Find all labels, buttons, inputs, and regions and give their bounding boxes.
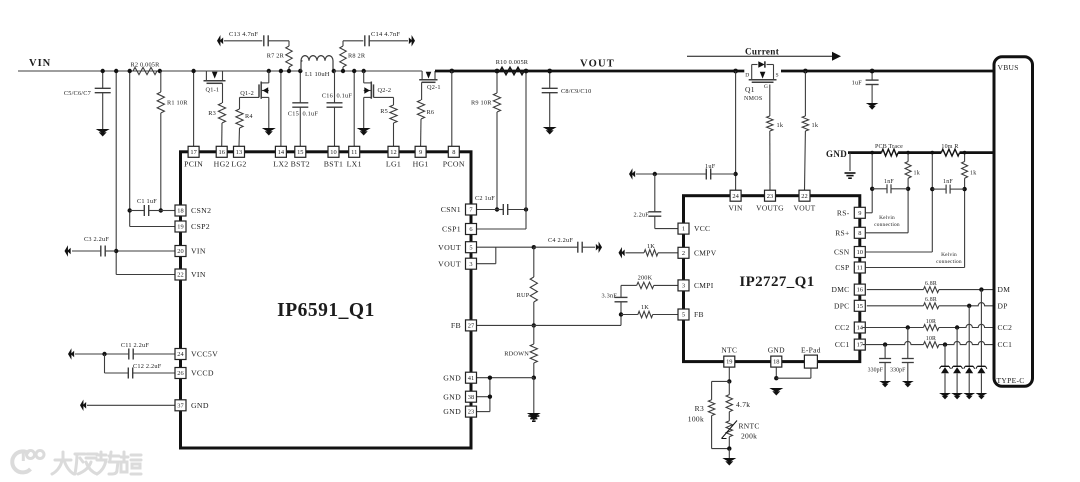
pin 13 LG2 IP6591 [231, 146, 246, 168]
wire CC1 line [862, 341, 923, 344]
wire GND41 net [477, 378, 534, 412]
node CSN 1nF [930, 187, 934, 191]
pin 3 VOUT IP6591 [438, 258, 476, 269]
node PCON [449, 69, 454, 74]
svg-text:GND: GND [443, 392, 461, 401]
svg-text:DM: DM [998, 285, 1011, 294]
svg-text:22: 22 [801, 193, 807, 200]
ground left of pin37 [80, 400, 86, 411]
pin 18 CSN2 IP6591 [175, 205, 211, 216]
pin 37 GND IP6591 [175, 400, 209, 411]
capacitor 1uF VN [636, 163, 736, 180]
svg-text:10: 10 [857, 249, 863, 256]
pin 6 CSP1 IP6591 [442, 224, 476, 235]
resistor R1 10R [157, 71, 188, 211]
node CSN2 junction [159, 208, 163, 212]
node GND38 junction [488, 376, 492, 380]
ground below C5/C6/C7 [96, 129, 110, 137]
svg-text:DMC: DMC [832, 285, 850, 294]
capacitor C3 2.2uF [72, 236, 116, 257]
ground left of C3 [65, 245, 71, 256]
svg-text:14: 14 [857, 325, 864, 332]
svg-text:CMPI: CMPI [694, 281, 714, 290]
svg-text:D: D [745, 73, 749, 79]
pin 17 PCIN IP6591 [184, 146, 203, 168]
resistor 6.8R DP [923, 297, 939, 309]
svg-text:C14 4.7nF: C14 4.7nF [371, 31, 400, 38]
svg-text:DP: DP [998, 301, 1008, 310]
svg-text:GND: GND [191, 401, 209, 410]
pin 15 DPC IP2727 [834, 300, 865, 311]
ground left of CMPV 1K [619, 247, 625, 258]
resistor RUP [517, 247, 538, 325]
node 1uF-rail [870, 69, 875, 74]
node VCC-2.2uF [653, 172, 657, 176]
label TYPE-C [997, 376, 1025, 385]
wire PCIN [193, 71, 195, 146]
svg-text:R5: R5 [380, 108, 388, 115]
pin 8 RS+ IP2727 [835, 227, 865, 238]
capacitor C1 1uF [130, 198, 161, 216]
svg-text:16: 16 [219, 149, 225, 156]
svg-text:Q2-2: Q2-2 [378, 87, 392, 94]
ground below GND18 [769, 388, 783, 396]
op-amp U1 IP6591_Q1 body [181, 152, 472, 448]
svg-text:CSP1: CSP1 [442, 225, 461, 234]
svg-text:330pF: 330pF [890, 368, 906, 374]
resistor 1K FB [621, 304, 678, 318]
svg-text:RS+: RS+ [835, 228, 849, 237]
node R9-rail [495, 69, 500, 74]
svg-text:11: 11 [351, 149, 357, 156]
svg-text:1k: 1k [970, 171, 976, 177]
resistor 4.7k [726, 381, 750, 411]
svg-text:1: 1 [682, 226, 685, 233]
node CC1 esd [943, 342, 947, 346]
node C11-C12 [102, 352, 106, 356]
wire RS- kelvin [865, 153, 872, 213]
label VOUT [580, 59, 615, 70]
svg-text:CMPV: CMPV [694, 248, 717, 257]
capacitor C13 4.7nF [224, 31, 289, 46]
svg-text:G: G [764, 84, 768, 90]
node PCIN-rail [191, 69, 195, 73]
node VIN-C5 [101, 69, 105, 73]
svg-text:Kelvin: Kelvin [879, 215, 895, 221]
svg-text:330pF: 330pF [868, 368, 884, 374]
node CSP bus [963, 151, 967, 155]
wire DM line right [939, 289, 994, 291]
wire CC1 line right [939, 341, 994, 344]
transistor Q1 NMOS [744, 61, 779, 102]
svg-text:NTC: NTC [721, 345, 737, 354]
label VBUS [998, 63, 1019, 72]
svg-text:R3: R3 [695, 404, 704, 413]
pin 17 CC1 IP2727 [835, 339, 865, 350]
svg-text:2.2uF: 2.2uF [633, 212, 649, 219]
svg-text:5: 5 [682, 312, 685, 319]
label Current arrow [687, 47, 841, 61]
wire CSP1 net [477, 71, 526, 229]
node RS- 1nF [870, 187, 874, 191]
svg-text:15: 15 [297, 149, 303, 156]
svg-text:1uF: 1uF [852, 80, 863, 87]
svg-text:FB: FB [694, 310, 704, 319]
pin 19 NTC IP2727 [721, 345, 737, 367]
ground below Q2-2 [357, 128, 371, 136]
resistor R4 gate [236, 97, 259, 146]
diode ESD DM [976, 290, 987, 393]
svg-text:BST1: BST1 [324, 160, 343, 169]
pin 5 FB IP2727 [678, 309, 704, 320]
svg-text:18: 18 [177, 208, 183, 215]
svg-text:C5/C6/C7: C5/C6/C7 [64, 90, 91, 97]
ground below 330pF CC1 [879, 381, 891, 387]
svg-text:Kelvin: Kelvin [941, 252, 957, 258]
svg-text:2: 2 [682, 250, 685, 257]
svg-text:RUP: RUP [517, 292, 530, 299]
label CC2 [998, 323, 1013, 332]
svg-text:VIN: VIN [191, 270, 206, 279]
svg-text:GND: GND [443, 373, 461, 382]
node R2 right [158, 69, 162, 73]
svg-text:38: 38 [468, 394, 474, 401]
svg-text:R1 10R: R1 10R [167, 100, 188, 107]
svg-text:1K: 1K [647, 243, 655, 250]
svg-text:GND: GND [768, 345, 785, 354]
pin 7 CSN1 IP6591 [441, 204, 477, 215]
svg-text:6: 6 [469, 226, 472, 233]
pin E-Pad IP2727 [801, 345, 821, 368]
ground left of C13 [217, 35, 223, 46]
resistor 1k RS+ [865, 153, 920, 233]
wire RDOWN to ground [533, 378, 535, 413]
capacitor C4 2.2uF [534, 237, 595, 253]
ground below ESD CC2 [951, 393, 963, 399]
svg-text:5: 5 [469, 244, 472, 251]
svg-text:DPC: DPC [834, 301, 850, 310]
svg-text:VOUT: VOUT [438, 259, 461, 268]
svg-text:S: S [776, 73, 779, 79]
svg-text:R3: R3 [208, 110, 216, 117]
ground below Q1-2 [262, 128, 276, 136]
svg-text:C1 1uF: C1 1uF [137, 198, 157, 205]
capacitor 1nF CS [932, 179, 964, 194]
svg-text:24: 24 [732, 193, 739, 200]
wire NTC to ground [728, 449, 730, 458]
capacitor C2 1uF [475, 195, 526, 215]
svg-text:TYPE-C: TYPE-C [997, 376, 1025, 385]
ground left of C11 [68, 348, 74, 359]
ground arrow right of C14 [409, 35, 415, 46]
svg-text:24: 24 [177, 351, 184, 358]
svg-text:3: 3 [469, 261, 472, 268]
label GND [826, 149, 847, 159]
svg-text:R10 0.005R: R10 0.005R [496, 59, 529, 66]
svg-text:3: 3 [682, 283, 685, 290]
pin 3 CMPI IP2727 [678, 280, 714, 291]
wire DP line [867, 305, 924, 307]
pin 14 LX2 IP6591 [273, 146, 288, 168]
label DP [998, 301, 1008, 310]
ground below 330pF CC2 [902, 381, 914, 387]
svg-text:LG2: LG2 [231, 160, 246, 169]
svg-text:IP2727_Q1: IP2727_Q1 [739, 274, 814, 290]
resistor 1k VOUT pin [802, 71, 819, 190]
svg-text:R6: R6 [427, 109, 435, 116]
ground below ESD CC1 [939, 393, 951, 399]
svg-text:BST2: BST2 [291, 160, 310, 169]
transistor Q2-1 [419, 71, 441, 91]
transistor Q1-2 [240, 71, 269, 128]
ground arrow right of C4 [596, 241, 602, 252]
diode ESD CC2 [952, 328, 963, 394]
capacitor 330pF CC1 [868, 345, 891, 381]
wire DP line right [939, 303, 994, 306]
svg-text:1nF: 1nF [943, 179, 953, 185]
resistor 10m R [941, 144, 959, 156]
resistor PCB Trace [875, 144, 903, 156]
svg-text:NMOS: NMOS [744, 96, 763, 102]
node DM esd [979, 287, 983, 291]
pin 23 GND IP6591 [443, 406, 476, 417]
node CC2 330pF [906, 325, 910, 329]
node L1 right [332, 69, 336, 73]
ground below GND bus [845, 173, 856, 178]
capacitor C14 4.7nF [343, 31, 408, 46]
pin 19 CSP2 IP6591 [175, 221, 210, 232]
svg-text:Current: Current [745, 47, 780, 57]
node RS- bus [870, 151, 874, 155]
node NTC bottom [727, 446, 731, 450]
svg-text:HG1: HG1 [413, 160, 429, 169]
svg-text:R4: R4 [245, 113, 253, 120]
svg-text:Q1: Q1 [745, 85, 755, 94]
pin 11 LX1 IP6591 [347, 146, 362, 168]
wire LX2 pin [280, 71, 282, 146]
svg-text:VIN: VIN [728, 204, 743, 213]
resistor R9 10R [471, 71, 501, 210]
svg-text:3.3nF: 3.3nF [601, 293, 617, 300]
svg-text:CC1: CC1 [835, 340, 850, 349]
svg-text:VOUTG: VOUTG [756, 204, 784, 213]
capacitor C8/C9/C10 [542, 71, 592, 127]
svg-text:37: 37 [177, 402, 184, 409]
svg-text:R7 2R: R7 2R [267, 53, 285, 60]
resistor RDOWN [504, 325, 537, 377]
svg-text:C15: C15 [288, 111, 299, 118]
svg-text:VBUS: VBUS [998, 63, 1019, 72]
pin 18 GND IP2727 [768, 345, 785, 367]
svg-text:10m R: 10m R [941, 144, 958, 150]
svg-text:VCC5V: VCC5V [191, 350, 218, 359]
ground left of 1uF [629, 168, 635, 179]
svg-text:HG2: HG2 [214, 160, 230, 169]
svg-text:100k: 100k [688, 415, 704, 424]
svg-text:1uF: 1uF [705, 163, 716, 170]
node LX2-pin [279, 69, 283, 73]
node CSN bus [931, 151, 935, 155]
pin 20 VIN IP6591 [175, 246, 206, 257]
resistor R2 0.005R [130, 62, 160, 75]
pin 16 HG2 IP6591 [214, 146, 230, 168]
svg-text:15: 15 [857, 303, 863, 310]
node RS+ bus [906, 151, 910, 155]
resistor R3 gate [208, 83, 225, 146]
label DM [998, 285, 1011, 294]
ground below ESD DP [963, 393, 975, 399]
wire CSN kelvin [865, 153, 932, 252]
svg-text:10R: 10R [926, 336, 936, 342]
wire NTC net [728, 367, 730, 381]
pin 26 VCCD IP6591 [175, 368, 214, 379]
svg-text:CC1: CC1 [998, 340, 1013, 349]
capacitor 2.2uF VCC [633, 174, 678, 229]
pin 2 CMPV IP2727 [678, 247, 717, 258]
thermistor RNTC 200k [722, 412, 760, 449]
resistor R6 gate [417, 82, 434, 146]
resistor 1k CSP [865, 153, 976, 268]
svg-text:11: 11 [857, 265, 863, 272]
pin 8 PCON IP6591 [443, 146, 465, 168]
svg-text:19: 19 [726, 359, 732, 366]
pin 10 CSN IP2727 [834, 247, 865, 258]
capacitor C5/C6/C7 [64, 71, 111, 129]
ground below ESD DM [975, 393, 987, 399]
wire LX1 segment [334, 70, 422, 72]
label CC1 [998, 340, 1013, 349]
svg-text:12: 12 [390, 149, 396, 156]
svg-text:CSN1: CSN1 [441, 205, 461, 214]
node GND18 [774, 376, 778, 380]
resistor 10R CC1 [923, 336, 939, 348]
wire VOUT pin5 [477, 246, 534, 248]
capacitor 1nF RS [872, 179, 908, 193]
svg-text:1k: 1k [777, 122, 784, 129]
node Q1 out [803, 69, 808, 74]
diode ESD DP [964, 306, 975, 393]
node NTC top [727, 379, 731, 383]
svg-text:R2 0.005R: R2 0.005R [130, 62, 160, 69]
node VOUT-RUP [532, 245, 536, 249]
node CSP1-rail [524, 69, 529, 74]
pin 5 VOUT IP6591 [438, 242, 476, 253]
resistor R10 0.005R [496, 59, 529, 75]
svg-text:E-Pad: E-Pad [801, 345, 821, 354]
svg-text:R9 10R: R9 10R [471, 100, 492, 107]
pin 11 CSP IP2727 [835, 262, 865, 273]
pin 41 GND IP6591 [443, 372, 476, 383]
svg-text:1nF: 1nF [884, 179, 894, 185]
label Kelvin connection 1 [874, 215, 900, 228]
svg-text:200K: 200K [638, 275, 653, 282]
wire DM line [867, 289, 924, 291]
node GND38-2 [488, 395, 492, 399]
inductor L1 10uH [301, 56, 333, 78]
svg-text:IP6591_Q1: IP6591_Q1 [277, 300, 375, 321]
svg-text:CC2: CC2 [835, 323, 850, 332]
svg-text:CSN2: CSN2 [191, 206, 211, 215]
svg-text:1K: 1K [641, 304, 649, 311]
svg-text:14: 14 [278, 149, 285, 156]
capacitor 330pF CC2 [890, 328, 914, 382]
svg-text:17: 17 [190, 149, 197, 156]
svg-text:LX2: LX2 [273, 160, 288, 169]
node C15-rail [298, 69, 302, 73]
wire GND37 [87, 404, 175, 406]
svg-text:CSN: CSN [834, 248, 850, 257]
capacitor C11 2.2uF [75, 342, 175, 360]
node CC2 esd [955, 325, 959, 329]
svg-text:9: 9 [419, 149, 422, 156]
node R7-rail [287, 69, 291, 73]
svg-text:8: 8 [858, 230, 861, 237]
capacitor 3.3nF [601, 285, 627, 314]
node FB 3.3nF [619, 312, 623, 316]
node CSN1 junction [495, 207, 499, 211]
svg-text:C11 2.2uF: C11 2.2uF [121, 342, 149, 349]
node DP esd [967, 304, 971, 308]
resistor 10R CC2 [923, 319, 939, 331]
svg-text:41: 41 [468, 375, 474, 382]
svg-text:23: 23 [767, 193, 773, 200]
svg-text:RNTC: RNTC [739, 422, 760, 431]
ground below C8 [543, 127, 557, 135]
svg-text:VIN: VIN [29, 58, 51, 69]
svg-text:6.8R: 6.8R [925, 297, 937, 303]
svg-text:CSP2: CSP2 [191, 222, 210, 231]
svg-text:8: 8 [452, 149, 455, 156]
pin 23 VOUTG IP2727 [756, 190, 784, 212]
svg-text:22: 22 [177, 272, 183, 279]
svg-text:VIN: VIN [191, 247, 206, 256]
wire FB line [477, 315, 621, 326]
svg-text:C3 2.2uF: C3 2.2uF [84, 236, 109, 243]
resistor 6.8R DM [923, 281, 939, 293]
pin 1 VCC IP2727 [678, 223, 710, 234]
wire CC2 line right [939, 324, 994, 327]
wire VBUS segment [781, 70, 994, 73]
capacitor 1uF VBUS [852, 71, 879, 103]
node VN-1uF [733, 172, 737, 176]
pin 12 LG1 IP6591 [386, 146, 401, 168]
svg-text:17: 17 [857, 342, 864, 349]
connector TYPE-C body [994, 57, 1033, 387]
svg-text:RDOWN: RDOWN [504, 351, 529, 358]
svg-text:PCB Trace: PCB Trace [875, 144, 903, 150]
resistor 1K CMPV [626, 243, 679, 256]
svg-text:C16: C16 [322, 93, 333, 100]
svg-text:9: 9 [858, 210, 861, 217]
node CSP2-rail [128, 69, 132, 73]
wire CSP2 net [130, 71, 175, 227]
wire CSN1 [477, 209, 497, 211]
svg-text:27: 27 [468, 323, 475, 330]
svg-text:4.7k: 4.7k [736, 400, 750, 409]
resistor R3 100k [688, 381, 730, 448]
svg-text:200k: 200k [741, 432, 757, 441]
svg-text:20: 20 [177, 248, 183, 255]
pin 38 GND IP6591 [443, 391, 476, 402]
wire VN net [735, 71, 737, 190]
svg-text:VOUT: VOUT [580, 59, 615, 70]
svg-text:10R: 10R [926, 319, 936, 325]
resistor R8 2R [340, 41, 366, 71]
svg-text:C12 2.2uF: C12 2.2uF [133, 363, 162, 370]
svg-text:CC2: CC2 [998, 323, 1013, 332]
resistor 200K CMPI [621, 275, 678, 289]
svg-text:VOUT: VOUT [438, 243, 461, 252]
